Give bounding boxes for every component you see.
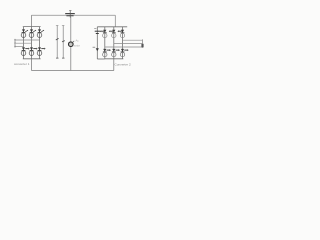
- thyristor T2' (conv2 bottom, leg C): [120, 49, 128, 57]
- wire: converter 2 bottom drop: [113, 59, 115, 71]
- svg-text:converter 1: converter 1: [14, 62, 30, 66]
- inductor Ld on top link (dark bar cluster): [65, 10, 75, 17]
- thyristor T6 (conv1 bottom, leg B): [29, 47, 37, 55]
- phase line v (right output): [114, 43, 143, 45]
- thyristor T3' (conv2 top, leg B): [109, 30, 116, 38]
- bottom DC return wire: [32, 70, 114, 72]
- battery plate long: [95, 30, 100, 32]
- converter 2 leg B wire: [113, 27, 115, 59]
- phase line a (left input): [15, 39, 40, 41]
- svg-text:Converter 2: Converter 2: [115, 63, 131, 67]
- converter 2 leg C wire: [122, 27, 124, 59]
- annotation arrow Vd2 (vertical line): [62, 25, 64, 58]
- thyristor T1 (conv1 top, leg A): [21, 29, 28, 37]
- arrow tick on Vd2: [62, 41, 65, 42]
- terminal nub b: [14, 42, 16, 45]
- meter M (circle): [69, 42, 74, 47]
- terminal blob: [141, 44, 143, 48]
- converter 1 leg A wire: [23, 27, 25, 59]
- thyristor T5 (conv1 top, leg C): [37, 29, 44, 37]
- label tick for Id: [93, 46, 96, 48]
- battery branch wire Vd: [96, 27, 98, 59]
- converter 1 bottom bus: [23, 58, 41, 60]
- thyristor T3 (conv1 top, leg B): [29, 29, 36, 37]
- thyristor T1' (conv2 top, leg A): [100, 30, 107, 38]
- thyristor T6' (conv2 bottom, leg B): [112, 49, 120, 57]
- wire: battery to converter 2 bottom bus: [97, 58, 105, 60]
- annotation arrow Vd1 (vertical line): [56, 25, 58, 58]
- phase line b (left input): [15, 42, 32, 44]
- wire: converter 2 top corner drop: [114, 15, 116, 27]
- battery plate short: [96, 33, 99, 35]
- output terminal bar (right): [142, 39, 144, 47]
- wire: converter 1 bottom drop: [31, 59, 33, 71]
- terminal nub a: [14, 38, 16, 41]
- terminal nub c: [14, 45, 16, 48]
- converter 1 leg C wire: [39, 27, 41, 59]
- foot of Vd2: [62, 57, 65, 59]
- converter 1 top bus: [23, 26, 41, 28]
- foot of Vd1: [56, 57, 59, 59]
- phase line u (right output): [123, 39, 143, 41]
- thyristor T5' (conv2 top, leg C): [118, 30, 125, 38]
- converter 2 bottom bus: [105, 58, 124, 60]
- converter 1 riser wire: [31, 15, 33, 26]
- thyristor T4 (conv1 bottom, leg A): [21, 47, 29, 55]
- meter needle: [72, 41, 75, 43]
- thyristor T4' (conv2 bottom, leg A): [103, 49, 111, 57]
- thyristor T2 (conv1 bottom, leg C): [37, 47, 45, 55]
- AC source bus bar (left): [14, 39, 16, 48]
- wire: top DC link from converter 1 riser to converter 2 corner: [32, 14, 116, 16]
- phase line w (right output): [105, 46, 143, 48]
- converter 2 top bus: [97, 26, 127, 28]
- svg-text:motor: motor: [73, 43, 80, 47]
- current arrow Id (down): [96, 48, 99, 51]
- converter 1 leg B wire: [31, 27, 33, 59]
- polarity tick: [94, 27, 96, 29]
- phase line c (left input): [15, 46, 24, 48]
- converter 2 leg A wire: [104, 27, 106, 59]
- wire: center tap with meter: [70, 17, 72, 71]
- arrow tick on Vd1: [56, 38, 59, 40]
